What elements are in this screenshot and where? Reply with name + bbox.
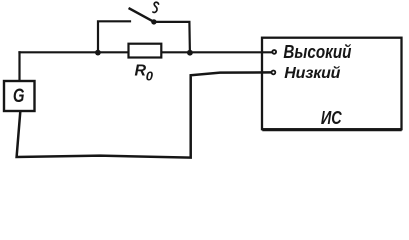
svg-text:R: R	[135, 62, 147, 79]
svg-text:0: 0	[146, 68, 154, 83]
svg-text:G: G	[13, 84, 25, 107]
svg-text:ИС: ИС	[321, 107, 343, 128]
svg-text:Низкий: Низкий	[284, 65, 340, 82]
svg-text:Высокий: Высокий	[283, 41, 351, 62]
